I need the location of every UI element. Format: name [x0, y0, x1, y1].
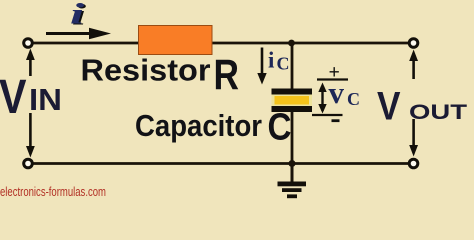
svg-text:i: i	[70, 0, 85, 31]
capacitor C	[272, 89, 313, 113]
wire capacitor branch	[291, 43, 294, 164]
svg-text:V: V	[377, 85, 401, 129]
svg-text:R: R	[214, 51, 240, 99]
wire top horizontal	[32, 42, 410, 45]
label VIN	[0, 71, 62, 124]
svg-text:OUT: OUT	[409, 101, 467, 124]
arrow vin down	[26, 113, 35, 158]
label i	[70, 0, 87, 32]
vc double arrow	[318, 83, 326, 114]
label vc	[329, 75, 361, 110]
vc top bar	[317, 78, 348, 80]
label VOUT	[377, 85, 467, 129]
svg-text:C: C	[277, 54, 290, 74]
node junction bottom	[289, 160, 296, 167]
resistor R	[139, 26, 213, 55]
vc minus sign	[332, 119, 340, 122]
svg-text:Capacitor: Capacitor	[135, 108, 262, 143]
wire bottom horizontal	[32, 162, 409, 165]
svg-text:C: C	[268, 107, 292, 149]
arrow vout up	[409, 50, 418, 80]
svg-text:C: C	[347, 89, 360, 109]
node junction top	[288, 40, 295, 47]
svg-text:V: V	[0, 71, 27, 124]
svg-text:v: v	[329, 75, 345, 110]
svg-text:i: i	[268, 48, 275, 73]
svg-text:Resistor: Resistor	[81, 53, 211, 88]
terminal top-right	[409, 39, 418, 48]
ground	[278, 164, 307, 199]
arrow ic	[257, 48, 266, 85]
vc bottom bar	[312, 114, 343, 116]
terminal bottom-left	[24, 159, 33, 168]
terminal bottom-right	[409, 159, 418, 168]
label Resistor R	[81, 51, 240, 99]
svg-text:IN: IN	[29, 82, 62, 117]
terminal top-left	[24, 39, 33, 48]
arrow vin up	[26, 49, 35, 77]
svg-text:electronics-formulas.com: electronics-formulas.com	[0, 185, 106, 199]
label Capacitor C	[135, 107, 292, 149]
current arrow i	[46, 28, 111, 40]
label ic	[268, 48, 290, 74]
arrow vout down	[409, 119, 418, 157]
